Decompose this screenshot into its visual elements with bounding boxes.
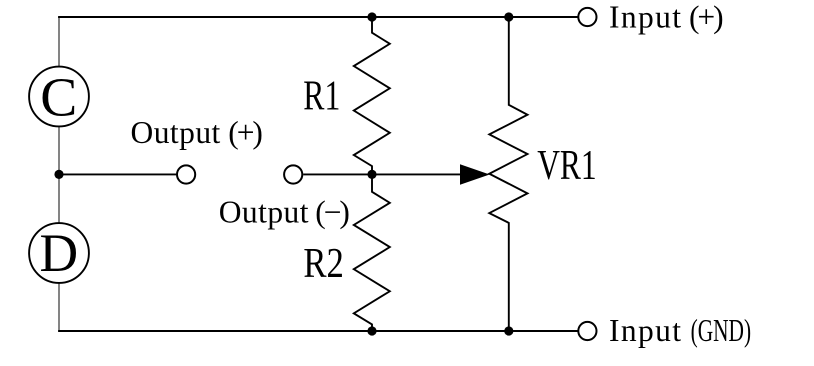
svg-text:D: D	[39, 223, 78, 283]
svg-text:R1: R1	[303, 74, 340, 120]
svg-text:C: C	[40, 67, 77, 128]
svg-text:(GND): (GND)	[691, 313, 752, 348]
svg-text:Output: Output	[219, 195, 309, 230]
svg-text:(+): (+)	[689, 0, 724, 35]
svg-text:VR1: VR1	[537, 143, 597, 189]
svg-text:Output: Output	[131, 115, 221, 150]
svg-text:R2: R2	[303, 241, 344, 287]
svg-text:(+): (+)	[228, 115, 263, 150]
svg-text:(−): (−)	[315, 195, 350, 230]
